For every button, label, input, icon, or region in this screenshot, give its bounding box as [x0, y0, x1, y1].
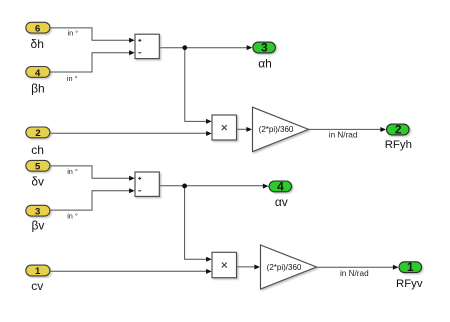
svg-text:RFyh: RFyh [385, 139, 412, 151]
svg-text:1: 1 [35, 266, 41, 277]
svg-text:5: 5 [35, 162, 41, 173]
svg-text:1: 1 [407, 260, 414, 274]
svg-text:δv: δv [31, 175, 44, 189]
svg-text:ch: ch [31, 143, 44, 157]
svg-text:in °: in ° [67, 74, 78, 83]
svg-text:(2*pi)/360: (2*pi)/360 [267, 263, 302, 272]
svg-text:αv: αv [275, 195, 288, 209]
svg-text:3: 3 [35, 207, 40, 218]
svg-text:in °: in ° [67, 29, 78, 38]
svg-text:RFyv: RFyv [396, 278, 423, 290]
svg-text:βv: βv [31, 218, 44, 232]
svg-text:3: 3 [261, 41, 268, 55]
svg-text:2: 2 [395, 123, 402, 137]
svg-text:2: 2 [35, 128, 40, 139]
svg-text:4: 4 [35, 68, 41, 79]
svg-text:δh: δh [31, 37, 44, 51]
svg-text:βh: βh [31, 81, 45, 95]
svg-text:αh: αh [258, 56, 272, 70]
svg-text:cv: cv [31, 279, 43, 293]
svg-text:in N/rad: in N/rad [340, 269, 369, 278]
svg-text:in °: in ° [67, 211, 78, 220]
svg-text:4: 4 [277, 179, 284, 193]
svg-text:in °: in ° [67, 167, 78, 176]
svg-text:6: 6 [35, 24, 40, 35]
svg-text:(2*pi)/360: (2*pi)/360 [259, 125, 294, 134]
svg-text:in N/rad: in N/rad [329, 131, 358, 140]
